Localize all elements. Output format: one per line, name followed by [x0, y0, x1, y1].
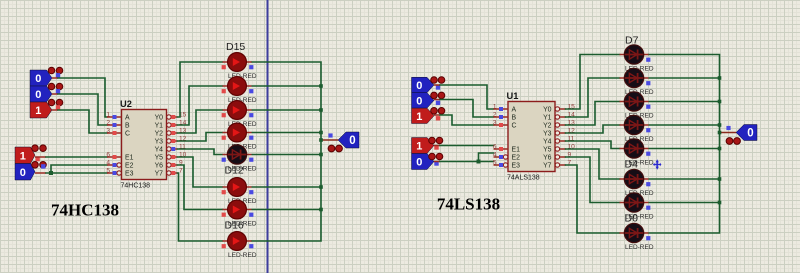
- wire branch to U2.E2 + junction: [49, 165, 107, 175]
- wire right LED row 7 cathode to bus: [649, 201, 722, 205]
- wire U1.Y4 to LED row 5: [566, 141, 620, 149]
- svg-text:1: 1: [416, 111, 422, 123]
- svg-text:Y4: Y4: [543, 139, 552, 146]
- svg-text:B: B: [125, 123, 130, 130]
- LED R0 (LED-RED): [620, 45, 654, 73]
- wire U1.Y7 to LED row 8: [566, 165, 620, 233]
- wire E1-input to U2.E1: [35, 156, 107, 158]
- svg-text:0: 0: [349, 135, 355, 147]
- svg-text:0: 0: [416, 157, 422, 169]
- svg-text:D15: D15: [226, 41, 245, 53]
- svg-text:3: 3: [493, 119, 497, 126]
- U1 pin Y1 (14): [555, 111, 575, 119]
- logicstate left cathode level value 0: [328, 132, 359, 152]
- svg-text:U1: U1: [507, 91, 519, 101]
- svg-text:C: C: [125, 131, 130, 138]
- wire bus to right pull-down logicstate: [718, 131, 736, 135]
- svg-text:0: 0: [747, 128, 753, 140]
- wire U1.Y5 to LED row 6: [566, 149, 620, 179]
- svg-text:E3: E3: [512, 163, 521, 170]
- wire U1.Y6 to LED row 7: [566, 157, 620, 203]
- svg-text:74HC138: 74HC138: [121, 183, 151, 190]
- U2 pin Y5 (10): [167, 151, 187, 159]
- svg-text:Y2: Y2: [155, 131, 164, 138]
- sheet border (vertical blue line): [267, 0, 269, 273]
- svg-text:Y1: Y1: [543, 115, 552, 122]
- IC U2 74HC138 body: [120, 99, 167, 190]
- IC U1 74ALS138 body: [507, 91, 556, 182]
- svg-text:Y0: Y0: [155, 115, 164, 122]
- U2 pin C (3): [106, 127, 121, 135]
- wire right LED row 2 cathode to bus: [649, 76, 722, 80]
- LED R3 (LED-RED): [620, 115, 654, 143]
- svg-text:Y2: Y2: [543, 123, 552, 130]
- svg-text:Y0: Y0: [543, 107, 552, 114]
- svg-text:1: 1: [493, 103, 497, 110]
- LED D9 (LED-RED): [222, 200, 257, 231]
- U2 pin Y7 (7): [167, 167, 183, 175]
- svg-text:Y7: Y7: [155, 171, 164, 178]
- wire LED row 5 cathode to bus: [252, 153, 323, 157]
- logicstate right input A value 0: [412, 77, 445, 93]
- LED R4 (LED-RED): [620, 139, 654, 171]
- svg-text:5: 5: [493, 159, 497, 166]
- U2 pin Y0 (15): [167, 111, 187, 119]
- wire U2.Y1 to LED row 2: [178, 86, 223, 125]
- wire U2.Y0 to LED row 1: [178, 62, 223, 117]
- U1 pin Y7 (7): [555, 159, 571, 167]
- wire LED row 2 cathode to bus: [252, 84, 323, 88]
- svg-text:0: 0: [416, 95, 422, 107]
- wire right LED row 3 cathode to bus: [649, 100, 722, 104]
- U2 pin Y1 (14): [167, 119, 187, 127]
- wire right LED row 6 cathode to bus: [649, 177, 722, 181]
- svg-text:D0: D0: [625, 213, 639, 225]
- svg-text:B: B: [512, 115, 517, 122]
- svg-text:74HC138: 74HC138: [51, 201, 119, 220]
- wire LED row 7 cathode to bus: [252, 208, 323, 212]
- svg-text:2: 2: [106, 119, 110, 126]
- logicstate right cathode level value 0: [726, 125, 757, 145]
- logicstate right input C value 1: [412, 108, 445, 124]
- wire U1.Y3 to LED row 4: [566, 125, 620, 133]
- U2 pin E2 (4): [106, 159, 121, 167]
- svg-text:LED-RED: LED-RED: [228, 252, 257, 259]
- logicstate left input B value 0: [30, 83, 63, 102]
- svg-text:Y3: Y3: [543, 131, 552, 138]
- left cathode bus vertical: [252, 62, 322, 241]
- svg-text:6: 6: [493, 143, 497, 150]
- wire A-input to U1.A: [434, 85, 494, 109]
- U2 pin Y6 (9): [167, 159, 183, 167]
- svg-text:4: 4: [493, 151, 497, 158]
- svg-text:Y6: Y6: [543, 155, 552, 162]
- svg-text:Y3: Y3: [155, 139, 164, 146]
- wire B-input to U1.B: [434, 100, 494, 118]
- U1 pin Y5 (10): [555, 143, 575, 151]
- label D7: [625, 35, 639, 47]
- U1 pin Y2 (13): [555, 119, 575, 127]
- caption 74HC138: [51, 201, 119, 220]
- wire branch to U1.E2 + junction: [477, 153, 494, 164]
- U1 pin C (3): [493, 119, 508, 127]
- wire E2E3-input to U2.E3: [35, 172, 107, 174]
- svg-text:Y7: Y7: [543, 163, 552, 170]
- logicstate right input B value 0: [412, 92, 445, 108]
- logicstate left input A value 0: [30, 67, 63, 86]
- wire U2.Y4 to LED row 5: [178, 149, 223, 155]
- svg-text:0: 0: [416, 80, 422, 92]
- U1 pin E2 (4): [493, 151, 508, 159]
- svg-text:7: 7: [179, 167, 183, 174]
- svg-text:E1: E1: [512, 147, 521, 154]
- svg-text:LED-RED: LED-RED: [625, 244, 654, 251]
- svg-text:C: C: [512, 123, 517, 130]
- svg-text:0: 0: [20, 167, 26, 179]
- svg-text:0: 0: [35, 73, 41, 85]
- wire U1.Y0 to LED row 1: [566, 55, 620, 110]
- U2 pin Y3 (12): [167, 135, 187, 143]
- svg-text:A: A: [512, 107, 517, 114]
- right cathode bus vertical: [649, 55, 720, 234]
- svg-text:1: 1: [106, 111, 110, 118]
- U2 pin Y2 (13): [167, 127, 187, 135]
- LED R7 (LED-RED): [620, 223, 654, 251]
- U1 pin Y4 (11): [555, 135, 574, 143]
- U2 pin B (2): [106, 119, 121, 127]
- LED D14 (LED-RED): [222, 77, 257, 105]
- svg-text:D7: D7: [625, 35, 639, 47]
- svg-text:Y5: Y5: [155, 155, 164, 162]
- svg-text:1: 1: [416, 141, 422, 153]
- LED D8 (LED-RED): [222, 232, 257, 260]
- svg-text:E2: E2: [512, 155, 521, 162]
- U2 pin E3 (5): [106, 167, 121, 175]
- svg-text:Y1: Y1: [155, 123, 164, 130]
- svg-text:E2: E2: [125, 163, 134, 170]
- svg-text:E3: E3: [125, 171, 134, 178]
- wire U1.Y1 to LED row 2: [566, 78, 620, 117]
- wire right LED row 4 cathode to bus: [649, 123, 722, 127]
- logicstate right enable E2E3 value 0: [412, 153, 443, 169]
- svg-text:Y6: Y6: [155, 163, 164, 170]
- svg-text:Y4: Y4: [155, 147, 164, 154]
- U2 pin E1 (6): [106, 151, 121, 159]
- wire right LED row 5 cathode to bus: [649, 147, 722, 151]
- svg-text:0: 0: [35, 89, 41, 101]
- LED R6 (LED-RED): [620, 193, 654, 225]
- U1 pin Y0 (15): [555, 103, 575, 111]
- wire A-input to U2.A: [52, 78, 107, 117]
- U1 pin A (1): [493, 103, 508, 111]
- svg-text:E1: E1: [125, 155, 134, 162]
- wire E2E3-input to U1.E3: [434, 161, 494, 163]
- wire bus to left pull-down logicstate: [319, 138, 338, 142]
- wire U2.Y5 to LED row 6: [178, 157, 223, 187]
- blue origin cursor marker: [653, 159, 661, 170]
- wire U2.Y2 to LED row 3: [178, 110, 223, 133]
- svg-text:74ALS138: 74ALS138: [507, 175, 540, 182]
- U1 pin Y3 (12): [555, 127, 575, 135]
- LED D10 (LED-RED): [222, 178, 257, 206]
- svg-text:3: 3: [106, 127, 110, 134]
- svg-text:4: 4: [106, 159, 110, 166]
- svg-text:D4: D4: [625, 159, 639, 171]
- svg-text:U2: U2: [120, 99, 132, 109]
- LED D11 (LED-RED): [222, 145, 257, 177]
- svg-text:74LS138: 74LS138: [437, 195, 500, 214]
- wire B-input to U2.B: [52, 94, 107, 125]
- U2 pin A (1): [106, 111, 121, 119]
- svg-text:1: 1: [20, 150, 26, 162]
- wire LED row 4 cathode to bus: [252, 131, 323, 135]
- LED R1 (LED-RED): [620, 68, 654, 96]
- logicstate right enable E1 value 1: [412, 137, 443, 153]
- wire C-input to U1.C: [434, 115, 494, 125]
- U1 pin E1 (6): [493, 143, 508, 151]
- wire C-input to U2.C: [52, 110, 107, 133]
- LED D15 (LED-RED): [222, 53, 257, 81]
- svg-text:D16: D16: [225, 220, 244, 232]
- svg-text:1: 1: [35, 105, 41, 117]
- LED D13 (LED-RED): [222, 101, 257, 129]
- logicstate left input C value 1: [30, 99, 63, 118]
- U1 pin Y6 (9): [555, 151, 571, 159]
- svg-text:2: 2: [493, 111, 497, 118]
- wire U2.Y6 to LED row 7: [178, 165, 223, 210]
- LED D12 (LED-RED): [222, 123, 257, 151]
- wire U1.Y2 to LED row 3: [566, 102, 620, 126]
- logicstate left enable E1 value 1: [15, 145, 46, 164]
- wire E1-input to U1.E1: [434, 145, 494, 147]
- svg-text:Y5: Y5: [543, 147, 552, 154]
- wire LED row 3 cathode to bus: [252, 108, 323, 112]
- wire U2.Y3 to LED row 4: [178, 133, 223, 142]
- LED R5 (LED-RED): [620, 169, 654, 197]
- label D15: [226, 41, 245, 53]
- svg-text:D12: D12: [225, 165, 244, 177]
- svg-text:5: 5: [106, 167, 110, 174]
- U1 pin B (2): [493, 111, 508, 119]
- wire U2.Y7 to LED row 8: [178, 173, 223, 241]
- svg-text:6: 6: [106, 151, 110, 158]
- U2 pin Y4 (11): [167, 143, 186, 151]
- wire LED row 6 cathode to bus: [252, 185, 323, 189]
- caption 74LS138: [437, 195, 500, 214]
- LED R2 (LED-RED): [620, 92, 654, 120]
- logicstate left enable E2E3 value 0: [15, 162, 46, 181]
- U1 pin E3 (5): [493, 159, 508, 167]
- svg-text:A: A: [125, 115, 130, 122]
